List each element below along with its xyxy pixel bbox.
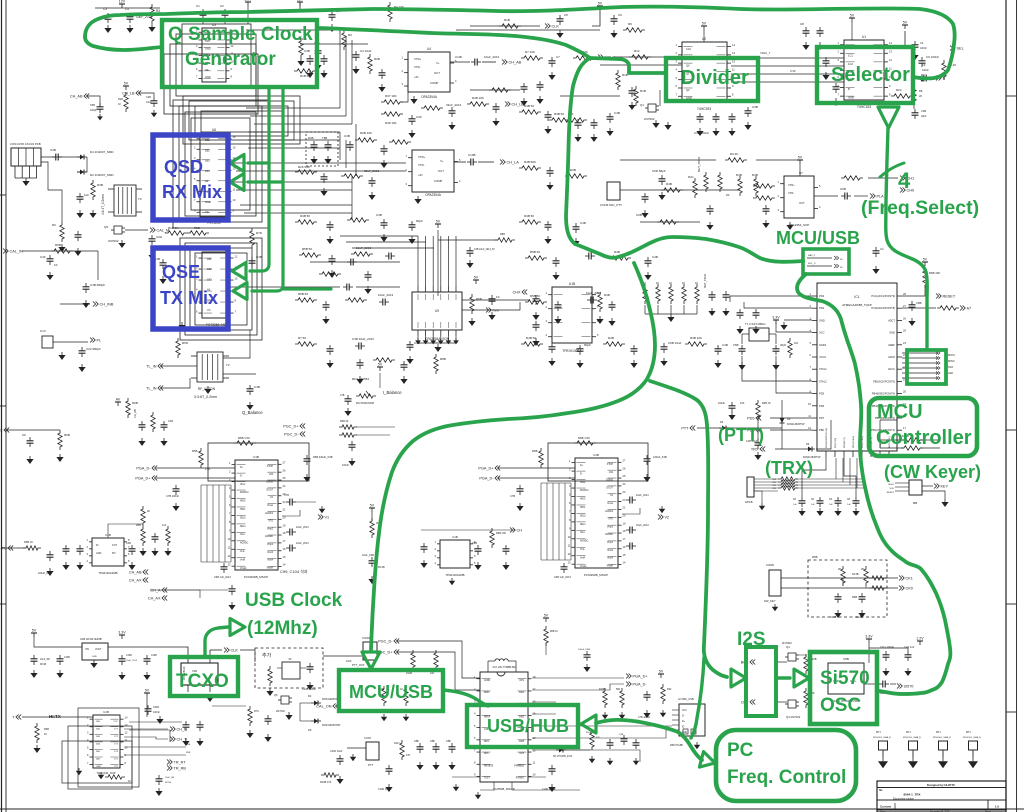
svg-text:R10B 47K: R10B 47K — [320, 781, 332, 784]
svg-text:CLK: CLK — [686, 47, 691, 51]
svg-text:C6D 68pF: C6D 68pF — [652, 169, 666, 173]
svg-text:MOSI: MOSI — [948, 353, 955, 357]
svg-text:QSE: QSE — [162, 262, 200, 282]
svg-text:D4: D4 — [720, 420, 724, 424]
svg-text:COMP: COMP — [434, 179, 443, 183]
svg-text:MTHOLE_SMA_B: MTHOLE_SMA_B — [933, 736, 951, 739]
svg-text:C13B 100nF: C13B 100nF — [302, 688, 317, 691]
svg-text:C10B: C10B — [468, 153, 476, 157]
svg-text:DOUT: DOUT — [606, 487, 613, 489]
svg-text:PD5: PD5 — [819, 392, 825, 396]
svg-text:5V: 5V — [903, 21, 908, 25]
svg-text:10uF_2013: 10uF_2013 — [636, 524, 649, 527]
svg-text:R22: R22 — [667, 688, 672, 691]
svg-text:R10B: R10B — [599, 688, 605, 691]
svg-text:C3B: C3B — [304, 49, 310, 53]
svg-text:CAL_IN: CAL_IN — [10, 250, 24, 254]
svg-text:1B2: 1B2 — [205, 148, 210, 152]
svg-text:R4B: R4B — [752, 173, 758, 177]
svg-text:C4B: C4B — [146, 96, 151, 99]
svg-text:ID: ID — [682, 727, 685, 729]
svg-text:TPB?6130BA: TPB?6130BA — [562, 349, 582, 353]
svg-text:R5B: R5B — [532, 449, 538, 453]
svg-text:2N7002: 2N7002 — [108, 239, 119, 243]
svg-text:MT1: MT1 — [936, 731, 941, 734]
svg-text:3.3V: 3.3V — [118, 631, 126, 635]
svg-text:D5: D5 — [787, 417, 791, 421]
svg-text:12V: 12V — [297, 0, 304, 2]
svg-text:5V: 5V — [659, 670, 664, 674]
svg-text:U1B: U1B — [452, 535, 458, 539]
svg-text:GP1B: GP1B — [745, 500, 753, 504]
svg-text:QL850B_MSOP: QL850B_MSOP — [493, 787, 515, 791]
svg-text:4:4:4T_0.2mm: 4:4:4T_0.2mm — [101, 194, 105, 215]
svg-text:(TRX): (TRX) — [765, 458, 813, 478]
svg-text:VmL: VmL — [580, 549, 585, 551]
svg-text:1B3: 1B3 — [207, 277, 212, 281]
svg-text:R4B 50: R4B 50 — [524, 214, 534, 218]
svg-text:PCM290B_MSOP: PCM290B_MSOP — [244, 575, 268, 579]
svg-text:CAL_ON: CAL_ON — [316, 705, 331, 709]
svg-text:U1B: U1B — [569, 282, 575, 286]
svg-text:C2: C2 — [220, 4, 224, 8]
svg-text:5V: 5V — [923, 258, 928, 262]
svg-text:V+: V+ — [436, 61, 440, 65]
svg-text:PD6: PD6 — [819, 404, 825, 408]
svg-text:1uF: 1uF — [829, 504, 833, 506]
svg-text:Vdd: Vdd — [609, 472, 614, 474]
svg-text:Q6: Q6 — [274, 693, 278, 697]
svg-text:10uF_K3B: 10uF_K3B — [362, 554, 374, 557]
svg-text:CH_LB: CH_LB — [122, 92, 135, 96]
svg-text:R6B: R6B — [132, 401, 138, 405]
svg-text:R6B: R6B — [44, 728, 49, 731]
svg-text:Designed by HL9FTC: Designed by HL9FTC — [927, 783, 955, 787]
svg-text:T1 3.3/3.6 8MHz: T1 3.3/3.6 8MHz — [745, 322, 766, 326]
svg-text:RF7_MZ7B4: RF7_MZ7B4 — [352, 377, 369, 381]
svg-text:3.3V: 3.3V — [790, 69, 796, 73]
svg-text:C7B: C7B — [510, 494, 515, 498]
svg-text:Q_Balance: Q_Balance — [242, 410, 263, 415]
svg-text:VmR: VmR — [580, 557, 585, 559]
svg-text:+IN: +IN — [414, 75, 418, 79]
svg-text:Freq. Control: Freq. Control — [727, 767, 846, 788]
svg-text:C7: C7 — [556, 55, 560, 59]
svg-text:PD1(TXD): PD1(TXD) — [835, 438, 837, 448]
svg-text:20pF: 20pF — [921, 115, 927, 118]
svg-text:VCC2: VCC2 — [819, 355, 826, 359]
svg-text:XTO: XTO — [608, 519, 613, 521]
svg-text:CON6 MIC_PTT: CON6 MIC_PTT — [600, 203, 622, 207]
svg-text:PD5: PD5 — [747, 417, 754, 421]
svg-text:R5B: R5B — [136, 524, 141, 527]
svg-text:C6B: C6B — [840, 187, 846, 191]
svg-text:C10B: C10B — [151, 655, 157, 657]
svg-text:60pF: 60pF — [584, 343, 591, 347]
svg-text:D4: D4 — [308, 694, 312, 698]
svg-text:10K: 10K — [430, 672, 435, 675]
svg-text:1B1: 1B1 — [207, 257, 212, 261]
svg-text:Divider: Divider — [681, 67, 749, 89]
svg-text:RC1B: RC1B — [40, 664, 47, 666]
svg-text:PC: PC — [727, 740, 754, 761]
svg-text:CH_INB: CH_INB — [100, 303, 114, 307]
svg-text:R5B 1.5K: R5B 1.5K — [578, 436, 590, 440]
svg-text:R3B: R3B — [570, 168, 576, 172]
svg-text:LED: LED — [948, 371, 953, 375]
svg-text:C4B: C4B — [254, 385, 260, 389]
svg-text:C4B 10uF_2013_6V: C4B 10uF_2013_6V — [474, 249, 495, 251]
svg-text:R5B 1.5K: R5B 1.5K — [238, 436, 250, 440]
svg-text:3.3V: 3.3V — [772, 316, 780, 320]
svg-text:C1: C1 — [196, 4, 200, 8]
svg-text:33uF_2013: 33uF_2013 — [446, 103, 462, 107]
svg-text:MT1: MT1 — [876, 731, 881, 734]
svg-text:R3: R3 — [348, 33, 352, 37]
svg-text:PC0(ADC0/PCINT8): PC0(ADC0/PCINT8) — [871, 306, 895, 310]
svg-text:RX Mix: RX Mix — [162, 182, 222, 202]
svg-text:R4B 50: R4B 50 — [300, 214, 310, 218]
svg-text:U1B: U1B — [253, 455, 259, 459]
svg-text:VTR+: VTR+ — [414, 57, 422, 61]
svg-text:5V: 5V — [378, 363, 383, 367]
svg-text:DGNDU: DGNDU — [580, 490, 589, 492]
svg-text:R5B: R5B — [186, 752, 191, 754]
svg-text:C8B: C8B — [619, 734, 624, 736]
svg-text:C6B: C6B — [636, 213, 642, 217]
svg-text:C9 100nF: C9 100nF — [926, 55, 939, 59]
svg-text:5V: 5V — [598, 2, 603, 6]
svg-text:10nF: 10nF — [346, 660, 352, 663]
svg-text:V1: V1 — [325, 516, 330, 520]
svg-text:OUT: OUT — [438, 169, 444, 173]
svg-text:C60: C60 — [168, 419, 174, 423]
svg-text:R7 10K: R7 10K — [525, 50, 535, 54]
svg-text:R37 10K: R37 10K — [385, 94, 397, 98]
svg-text:100pF: 100pF — [90, 109, 97, 112]
svg-text:VC: VC — [207, 308, 211, 312]
svg-text:Vout4: Vout4 — [267, 559, 274, 562]
svg-text:AREF: AREF — [888, 343, 895, 347]
svg-text:8064-1_TRX: 8064-1_TRX — [903, 793, 920, 797]
svg-text:R4B: R4B — [614, 250, 620, 254]
svg-text:R6B 10K: R6B 10K — [496, 532, 506, 535]
svg-text:R3B: R3B — [97, 183, 103, 187]
svg-text:5V: 5V — [145, 689, 150, 693]
svg-text:50K: 50K — [616, 688, 621, 691]
svg-text:(12Mhz): (12Mhz) — [247, 618, 318, 639]
svg-text:10uF: 10uF — [146, 101, 152, 104]
svg-text:C4B: C4B — [256, 255, 262, 259]
svg-text:PD0(RXD/PCINT16): PD0(RXD/PCINT16) — [826, 428, 828, 448]
svg-text:A7: A7 — [967, 307, 972, 311]
svg-text:DM3: DM3 — [519, 741, 525, 743]
svg-text:VTR+: VTR+ — [418, 155, 426, 159]
svg-text:CLK: CLK — [552, 25, 560, 29]
svg-text:C8B: C8B — [916, 301, 922, 305]
svg-text:C2: C2 — [880, 247, 884, 251]
svg-text:1B2: 1B2 — [207, 267, 212, 271]
svg-text:RESETB: RESETB — [484, 765, 494, 767]
svg-text:R6B: R6B — [55, 243, 61, 247]
svg-text:PD7: PD7 — [819, 416, 825, 420]
svg-text:1.5K: 1.5K — [205, 467, 211, 471]
svg-text:R5B 1K: R5B 1K — [24, 540, 33, 544]
svg-text:CH_AX: CH_AX — [129, 579, 142, 583]
svg-text:R5B: R5B — [192, 449, 198, 453]
svg-text:1uF: 1uF — [84, 193, 89, 197]
svg-text:10uF_SR: 10uF_SR — [40, 659, 50, 661]
svg-text:Documents number: Documents number — [893, 798, 914, 801]
svg-text:MISO: MISO — [888, 484, 894, 486]
svg-text:R8B: R8B — [440, 357, 446, 361]
svg-text:Vout: Vout — [240, 533, 245, 536]
svg-text:PL: PL — [97, 339, 102, 343]
svg-text:100nF: 100nF — [342, 464, 350, 467]
svg-text:R4B: R4B — [308, 136, 314, 140]
svg-text:CK0: CK0 — [906, 587, 913, 591]
svg-text:HID1: HID1 — [580, 507, 586, 509]
svg-text:R38 10K: R38 10K — [385, 121, 397, 125]
svg-text:R5D: R5D — [182, 341, 189, 345]
svg-text:R5B: R5B — [194, 226, 200, 230]
svg-text:B: B — [848, 87, 850, 91]
svg-text:AVCC: AVCC — [888, 367, 895, 371]
svg-text:C9: C9 — [922, 63, 926, 67]
svg-text:GND: GND — [92, 656, 97, 658]
svg-text:V+: V+ — [440, 159, 444, 163]
svg-text:C6: C6 — [618, 13, 622, 17]
svg-text:C3B: C3B — [344, 134, 350, 138]
svg-text:U4: U4 — [427, 47, 431, 51]
svg-text:OPA2354A: OPA2354A — [421, 95, 438, 99]
svg-text:10uF_2013: 10uF_2013 — [378, 293, 394, 297]
svg-text:HID0: HID0 — [580, 499, 586, 501]
svg-text:U5B: U5B — [843, 657, 849, 661]
svg-text:Vout4: Vout4 — [607, 557, 614, 560]
svg-text:Q1: Q1 — [640, 103, 644, 107]
svg-text:AGNDC: AGNDC — [580, 540, 589, 543]
svg-text:C4B 100nF: C4B 100nF — [694, 131, 709, 135]
svg-text:C5B: C5B — [733, 343, 739, 347]
svg-text:VCC: VCC — [682, 710, 687, 712]
svg-text:TL_IN: TL_IN — [146, 387, 157, 391]
svg-text:2K: 2K — [919, 94, 922, 98]
svg-text:R1D 1K: R1D 1K — [168, 226, 179, 230]
svg-text:Controller: Controller — [876, 427, 972, 449]
svg-text:PGC_D-: PGC_D- — [378, 640, 393, 644]
svg-text:XTAL2: XTAL2 — [819, 379, 827, 383]
svg-text:C6: C6 — [22, 433, 26, 437]
svg-text:TPA6130A2MB: TPA6130A2MB — [445, 573, 464, 577]
svg-text:1K: 1K — [496, 295, 500, 299]
svg-text:3.3V: 3.3V — [865, 635, 873, 639]
svg-text:C10F 10uF: C10F 10uF — [330, 750, 343, 753]
svg-text:74HC393: 74HC393 — [697, 107, 711, 111]
svg-text:C14F: C14F — [830, 615, 837, 619]
svg-text:Vmp1: Vmp1 — [267, 544, 274, 546]
svg-text:1K: 1K — [669, 281, 672, 285]
svg-text:(Freq.Select): (Freq.Select) — [861, 197, 979, 219]
svg-text:2N7002: 2N7002 — [644, 117, 655, 121]
svg-text:PGA_D-: PGA_D- — [136, 467, 151, 471]
svg-text:C31B: C31B — [153, 706, 159, 709]
svg-text:R8: R8 — [919, 89, 923, 93]
svg-text:MCU/USB: MCU/USB — [776, 228, 860, 248]
svg-text:AGND2: AGND2 — [605, 510, 614, 513]
svg-text:VTR-: VTR- — [418, 163, 425, 167]
svg-text:CH_AB: CH_AB — [70, 95, 83, 99]
svg-text:D-: D- — [240, 475, 243, 477]
svg-text:U1B: U1B — [103, 710, 109, 714]
svg-text:CON7: CON7 — [364, 736, 372, 740]
svg-text:C111 100pF: C111 100pF — [880, 645, 894, 649]
svg-text:Q4: Q4 — [786, 645, 790, 649]
svg-text:SCK: SCK — [890, 488, 895, 490]
svg-text:C4: C4 — [920, 41, 924, 45]
svg-text:CON1 RX6 1X4 R4 PCB: CON1 RX6 1X4 R4 PCB — [10, 142, 41, 146]
svg-text:1.2V: 1.2V — [916, 637, 924, 641]
svg-text:C99, C104 삭과: C99, C104 삭과 — [280, 568, 308, 574]
svg-text:CH_AX: CH_AX — [148, 597, 161, 601]
svg-text:1K: 1K — [44, 733, 47, 736]
svg-text:MT1: MT1 — [966, 731, 971, 734]
svg-text:D-: D- — [580, 473, 583, 475]
svg-text:VTR-: VTR- — [414, 65, 421, 69]
svg-text:C8: C8 — [800, 22, 804, 26]
svg-text:KEY: KEY — [941, 485, 949, 489]
svg-text:C5B: C5B — [90, 104, 95, 107]
svg-text:5V: 5V — [370, 504, 375, 508]
svg-text:10uF_2013: 10uF_2013 — [296, 542, 309, 545]
svg-text:10uF_2013: 10uF_2013 — [126, 660, 138, 662]
svg-text:Q4 2N7002: Q4 2N7002 — [786, 715, 801, 719]
svg-text:R24: R24 — [896, 88, 902, 92]
svg-text:4: 4 — [898, 168, 911, 193]
svg-text:C1V: C1V — [40, 329, 46, 333]
svg-text:RV2 BVR03LRM: RV2 BVR03LRM — [356, 402, 374, 405]
svg-text:HID1: HID1 — [240, 509, 246, 511]
svg-text:R6B 1K: R6B 1K — [550, 631, 558, 633]
svg-text:PD4: PD4 — [819, 306, 825, 310]
svg-text:MCL_D: MCL_D — [808, 263, 816, 265]
svg-text:R4B 50K: R4B 50K — [524, 160, 536, 164]
svg-text:TX Mix: TX Mix — [160, 288, 218, 308]
svg-text:KDS4148/MTSP: KDS4148/MTSP — [322, 724, 341, 727]
svg-text:DGND: DGND — [606, 480, 613, 482]
svg-text:XTOP: XTOP — [607, 464, 614, 466]
svg-text:HID0: HID0 — [240, 501, 246, 503]
svg-text:Q Sample Clock: Q Sample Clock — [168, 24, 313, 45]
svg-text:R4C: R4C — [688, 175, 694, 179]
svg-text:C4B: C4B — [652, 255, 658, 259]
svg-text:R6B: R6B — [500, 233, 505, 236]
svg-text:D2 1N4007_SMD: D2 1N4007_SMD — [90, 173, 114, 177]
svg-text:C4B: C4B — [722, 343, 728, 347]
svg-text:1B3: 1B3 — [205, 159, 210, 163]
svg-text:AGNDF: AGNDF — [265, 535, 274, 538]
svg-text:PTT: PTT — [681, 427, 689, 431]
svg-text:R6B 1K: R6B 1K — [762, 402, 771, 405]
svg-text:C2B: C2B — [921, 109, 926, 113]
svg-text:PTT: PTT — [368, 763, 374, 767]
svg-text:C6B: C6B — [472, 542, 477, 545]
svg-text:D-: D- — [682, 716, 685, 718]
svg-text:PGA_D-: PGA_D- — [479, 477, 494, 481]
svg-text:V2: V2 — [665, 516, 670, 520]
svg-text:GND: GND — [205, 76, 211, 79]
svg-text:MUT_PRO2: MUT_PRO2 — [703, 273, 707, 288]
svg-text:VmdR: VmdR — [607, 565, 614, 567]
svg-text:C4B: C4B — [580, 221, 586, 225]
svg-text:R4B: R4B — [604, 293, 610, 297]
svg-text:VTR+: VTR+ — [788, 183, 795, 187]
svg-text:Vdd: Vdd — [269, 474, 274, 476]
svg-text:Vmp2: Vmp2 — [267, 528, 274, 530]
svg-text:OSC: OSC — [820, 695, 861, 716]
svg-text:100nF: 100nF — [153, 711, 160, 714]
svg-text:USB Clock: USB Clock — [245, 590, 343, 611]
svg-text:PGA_D+: PGA_D+ — [478, 467, 494, 471]
svg-text:PWRBB2: PWRBB2 — [514, 765, 524, 767]
svg-text:R14B: R14B — [852, 572, 859, 576]
svg-text:QSD: QSD — [164, 157, 203, 177]
svg-text:RESET: RESET — [943, 295, 956, 299]
svg-text:추가: 추가 — [262, 652, 272, 659]
svg-text:SCK: SCK — [948, 365, 954, 369]
svg-text:OUT: OUT — [799, 201, 805, 205]
svg-text:R4B 50: R4B 50 — [526, 336, 536, 340]
svg-text:CH2 1uF: CH2 1uF — [904, 645, 915, 649]
svg-text:1.2V: 1.2V — [244, 0, 252, 2]
svg-text:MB: MB — [913, 501, 917, 505]
svg-text:TR_RB: TR_RB — [174, 767, 187, 771]
svg-text:5V: 5V — [436, 220, 441, 224]
svg-text:C7B 100nF: C7B 100nF — [638, 716, 651, 719]
svg-text:C7B: C7B — [284, 494, 289, 497]
svg-text:C10F: C10F — [455, 55, 463, 59]
svg-text:C141: C141 — [856, 615, 863, 619]
svg-text:220uF_K3B: 220uF_K3B — [38, 572, 52, 575]
svg-text:10uF_2013: 10uF_2013 — [484, 55, 500, 59]
svg-text:KDS4148/MTSP: KDS4148/MTSP — [787, 423, 805, 426]
svg-text:R26 50B: R26 50B — [298, 165, 310, 169]
svg-text:AGNDC: AGNDC — [240, 542, 249, 545]
svg-text:PGC_D-: PGC_D- — [284, 433, 299, 437]
svg-text:10uF_2013: 10uF_2013 — [636, 494, 649, 497]
svg-text:PCM290B_MSOP: PCM290B_MSOP — [584, 573, 608, 577]
svg-text:(PTT): (PTT) — [718, 425, 764, 445]
svg-text:5V: 5V — [544, 614, 549, 618]
svg-text:R4B 10K: R4B 10K — [472, 96, 484, 100]
svg-text:SEL0: SEL0 — [240, 517, 246, 519]
svg-text:Vbus: Vbus — [240, 484, 246, 486]
svg-text:U1B AP1117E33B: U1B AP1117E33B — [80, 637, 102, 641]
svg-text:PTT_OUT: PTT_OUT — [352, 663, 365, 667]
svg-text:C10B: C10B — [64, 657, 70, 659]
svg-text:SI570: SI570 — [904, 685, 914, 689]
svg-text:VOUT: VOUT — [95, 648, 102, 651]
svg-text:ADC7: ADC7 — [888, 318, 895, 322]
svg-text:R4B: R4B — [666, 182, 672, 186]
svg-text:OUT: OUT — [434, 71, 440, 75]
svg-text:IC1: IC1 — [854, 295, 859, 299]
svg-text:C4F: C4F — [40, 255, 46, 259]
svg-text:SEL: SEL — [957, 47, 964, 51]
svg-text:MUT_PRO2: MUT_PRO2 — [697, 156, 701, 172]
svg-text:PB7(XTAL2): PB7(XTAL2) — [852, 436, 855, 448]
svg-text:GND: GND — [819, 318, 825, 322]
